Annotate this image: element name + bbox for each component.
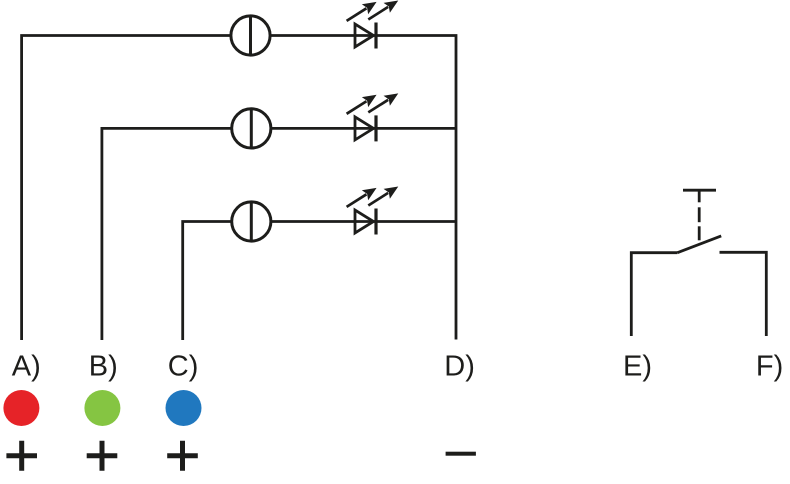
minus sign D [446,452,476,456]
current source I2 [232,109,271,148]
switch S1 actuator T-bar [683,189,716,192]
wire E terminal [631,253,677,336]
svg-text:C): C) [168,351,199,383]
wire B: vertical + row2 horizontal [102,128,456,340]
switch S1 actuator dash 1 [698,207,701,222]
current source I1 [231,16,270,55]
svg-text:E): E) [623,351,652,383]
LED D2 [343,88,401,141]
wire C: vertical + row3 horizontal [183,222,456,341]
plus sign A [6,441,37,471]
current source I3 [232,202,271,241]
blue dot (C) [166,390,202,426]
red dot (A) [3,390,39,426]
wire A: vertical + row1 horizontal + node D vertical [22,36,456,341]
LED D1 [343,0,401,49]
LED D3 [343,181,401,234]
svg-text:A): A) [12,351,41,383]
plus sign C [167,441,198,471]
switch S1 actuator stub [698,190,701,202]
switch S1 actuator dash 2 [698,226,701,240]
svg-text:B): B) [89,351,118,383]
plus sign B [87,441,118,471]
switch S1 lever [677,236,721,253]
wire F terminal [720,252,767,336]
svg-text:D): D) [444,351,475,383]
svg-text:F): F) [756,351,783,383]
green dot (B) [84,390,120,426]
